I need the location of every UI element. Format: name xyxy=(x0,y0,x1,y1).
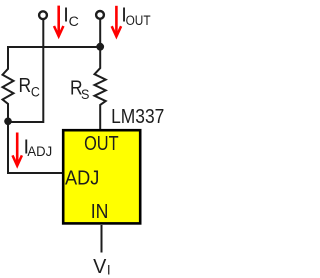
svg-text:C: C xyxy=(69,14,79,29)
label R_C xyxy=(19,75,41,99)
label R_S xyxy=(70,77,89,102)
wire from T1 down to ADJ node corner xyxy=(8,20,43,122)
svg-text:S: S xyxy=(81,87,89,102)
svg-text:ADJ: ADJ xyxy=(27,144,52,159)
wire IN pin down to V_I xyxy=(101,225,103,253)
junction dot at R_S top node xyxy=(96,43,104,51)
label V_I xyxy=(93,256,111,278)
svg-text:OUT: OUT xyxy=(84,133,119,155)
wire ADJ node down then right to ADJ pin xyxy=(8,120,62,173)
resistor R_C (zigzag on left rail) xyxy=(3,47,14,122)
wire T2 down to junction xyxy=(99,20,101,48)
svg-text:V: V xyxy=(93,256,107,278)
label I_C xyxy=(63,4,79,29)
svg-text:C: C xyxy=(31,85,40,100)
label I_ADJ xyxy=(24,137,53,160)
terminal T2 (right, I_OUT) xyxy=(96,11,104,19)
current arrow I_OUT (red) xyxy=(112,6,121,37)
current arrow I_ADJ (red) xyxy=(13,133,22,166)
wire top horizontal rail xyxy=(7,46,100,48)
svg-text:OUT: OUT xyxy=(126,13,151,28)
regulator U1 LM337 body xyxy=(63,130,140,223)
pin label IN xyxy=(91,201,109,223)
svg-text:IN: IN xyxy=(91,201,109,223)
pin label OUT xyxy=(84,133,119,155)
junction dot at ADJ node xyxy=(4,118,12,126)
current arrow I_C (red) xyxy=(54,6,63,37)
label LM337 xyxy=(111,106,164,128)
label I_OUT xyxy=(121,4,150,28)
resistor R_S (zigzag on right rail) xyxy=(95,47,106,129)
svg-text:ADJ: ADJ xyxy=(65,167,99,189)
svg-text:I: I xyxy=(107,262,111,277)
svg-text:R: R xyxy=(19,75,32,97)
pin label ADJ xyxy=(65,167,99,189)
terminal T1 (left, I_C) xyxy=(39,11,47,19)
svg-text:LM337: LM337 xyxy=(111,106,164,128)
